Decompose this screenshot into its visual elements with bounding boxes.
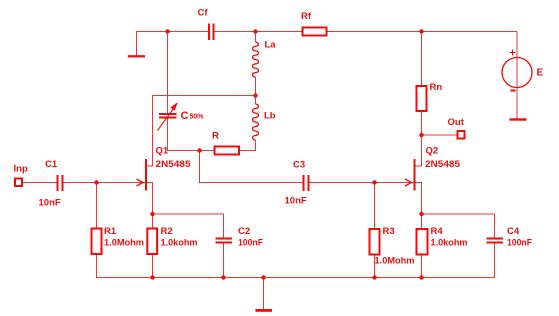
resistor R1 [92,229,102,255]
svg-text:C2: C2 [238,226,250,237]
wire R1 top lead [96,183,98,229]
variable capacitor C plates [159,114,177,118]
svg-text:E: E [537,68,544,79]
svg-text:Rf: Rf [301,11,312,22]
resistor R (tank) [215,147,240,155]
node tank bottom tap [197,148,201,152]
node Q2 source row [419,212,423,216]
resistor Rn [417,86,427,111]
svg-text:2N5485: 2N5485 [156,159,192,170]
wire variable cap upper [167,32,169,114]
svg-text:Inp: Inp [14,164,28,175]
svg-text:50%: 50% [190,114,205,121]
wire La bottom lead [255,77,257,96]
wire R3 bottom lead [374,255,376,279]
wire Lb top lead [255,96,257,105]
node R3 / gate wire [372,180,376,184]
node top rail / variable cap [165,29,169,33]
svg-text:R: R [212,131,219,142]
wire C4 bottom lead [494,244,496,278]
transistor Q1 [137,159,147,191]
wire tank loop top [152,95,256,97]
svg-text:C3: C3 [293,160,305,171]
node top rail / La [253,29,257,33]
wire Q2 source row to C4 [422,214,495,238]
svg-text:10nF: 10nF [39,198,61,209]
svg-text:La: La [265,40,277,51]
node Q1 source row [150,212,154,216]
svg-text:R3: R3 [383,226,395,237]
wire R4 bottom lead [421,255,423,279]
svg-text:R2: R2 [161,226,173,237]
transistor Q2 [405,159,415,191]
wire ground stem G1 [136,32,138,57]
node rail / R2 [150,275,154,279]
wire ground stem bottom [263,278,265,310]
wire tank bottom left of R [168,150,215,152]
source E circle [502,58,532,88]
svg-text:Q1: Q1 [156,146,169,157]
svg-text:Out: Out [448,117,465,128]
variable capacitor C arrow [158,102,179,131]
wire bottom rail [97,277,495,279]
wire top rail right of Cf [215,31,518,33]
svg-text:2N5485: 2N5485 [425,159,461,170]
E plus sign [510,50,516,56]
capacitor Cf [209,24,214,41]
wire out node to Out terminal [422,134,458,136]
wire Rn top lead [421,32,423,87]
svg-text:Lb: Lb [264,111,276,122]
capacitor C3 [304,175,309,191]
capacitor C2 plates [216,239,233,243]
ground G1 top-left bar [128,55,145,57]
wire variable cap lower [167,119,169,152]
wire tank loop left vertical to Q1 drain [147,96,153,167]
wire R4 top lead [421,214,423,229]
wire C2 bottom lead [223,244,225,279]
svg-text:100nF: 100nF [238,238,263,249]
svg-text:C: C [181,110,189,122]
wire top rail left of Cf [136,31,208,33]
wire Rn bottom lead to out node [421,111,423,135]
svg-text:10nF: 10nF [285,196,307,207]
wire Q2 drain lead [415,135,422,166]
wire R2 bottom lead [152,254,154,278]
node rail / R4 [419,275,423,279]
svg-text:R4: R4 [431,226,444,237]
wire R3 top lead [374,183,376,230]
wire La top lead [255,32,257,43]
wire E source lead vertical [516,32,518,120]
E minus sign [511,90,516,92]
terminal Inp square [15,179,22,187]
wire Q1 source lead [147,183,153,215]
wire Q2 source lead [415,183,422,215]
node rail / C2 [221,275,225,279]
svg-text:C4: C4 [507,226,520,237]
svg-text:1.0kohm: 1.0kohm [431,238,468,249]
capacitor C4 plates [487,239,504,243]
wire Lb bottom lead to R [239,140,256,151]
svg-text:1.0kohm: 1.0kohm [161,238,198,249]
ground E source bar [510,118,527,120]
resistor R2 [147,229,157,255]
wire R1 bottom lead [96,254,98,278]
node rail / ground [261,275,265,279]
resistor Rf [303,28,327,36]
resistor R3 [370,229,380,255]
wire Q1 source row to C2 [153,214,224,238]
svg-text:Q2: Q2 [426,146,439,157]
wire C1 to Q1 gate [63,182,146,184]
svg-text:C1: C1 [45,159,58,170]
node R1 / gate wire [94,180,98,184]
svg-text:R1: R1 [104,226,117,237]
terminal Out square [458,131,465,139]
node Out / Q2 drain [419,133,423,137]
svg-text:1.0Mohm: 1.0Mohm [375,256,415,267]
wire R2 top lead [152,214,154,229]
node top rail / Rn [419,29,423,33]
resistor R4 [417,229,428,255]
svg-text:Rn: Rn [430,82,443,93]
svg-text:1.0Mohm: 1.0Mohm [104,238,144,249]
svg-text:Cf: Cf [198,8,209,19]
svg-text:100nF: 100nF [507,238,532,249]
wire Inp to C1 [22,182,57,184]
wire tank tap down to C3 row [200,151,304,183]
node La-Lb / loop top [253,93,257,97]
node rail / R3 [372,275,376,279]
capacitor C1 [58,175,63,191]
inductor Lb [253,104,259,140]
inductor La [253,42,259,77]
wire C3 to Q2 gate [310,182,415,184]
ground bottom bar [256,309,273,312]
